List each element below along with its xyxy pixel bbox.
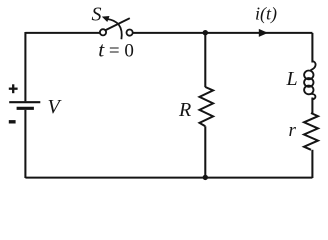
svg-text:V: V [48, 96, 63, 118]
wire top-left segment [25, 32, 100, 34]
wire right vertical upper (corner to L) [311, 33, 313, 63]
svg-text:S: S [92, 4, 102, 26]
battery - sign [9, 120, 16, 123]
wire middle vertical upper (node to R) [204, 33, 206, 87]
svg-text:R: R [178, 99, 191, 121]
switch S blade [106, 18, 130, 30]
resistor r zigzag [304, 113, 318, 150]
svg-text:t = 0: t = 0 [98, 38, 134, 62]
svg-text:i(t): i(t) [255, 4, 277, 25]
switch motion arc [107, 19, 122, 39]
wire left vertical lower (battery to bottom) [24, 110, 26, 178]
battery V short plate (-) [17, 107, 34, 110]
node top junction dot [203, 30, 208, 35]
svg-text:r: r [289, 120, 297, 141]
svg-text:L: L [286, 68, 298, 90]
node bottom junction dot [203, 175, 208, 180]
wire top-middle segment (switch to top-right corner) [133, 32, 313, 34]
wire left vertical upper (to battery) [24, 32, 26, 101]
wire middle vertical lower (R to bottom node) [204, 126, 206, 177]
switch motion arrowhead [102, 16, 110, 22]
battery + sign [9, 84, 18, 93]
wire bottom horizontal [25, 177, 312, 179]
resistor R zigzag [200, 87, 214, 126]
current arrow i(t) head [259, 29, 268, 37]
inductor L coil [304, 61, 316, 100]
switch S terminal circle right [127, 29, 133, 35]
wire right vertical lower (r to bottom corner) [311, 150, 313, 178]
switch S terminal circle left [100, 29, 106, 35]
battery V long plate (+) [9, 101, 40, 103]
wire right vertical middle (L to r) [311, 98, 313, 114]
